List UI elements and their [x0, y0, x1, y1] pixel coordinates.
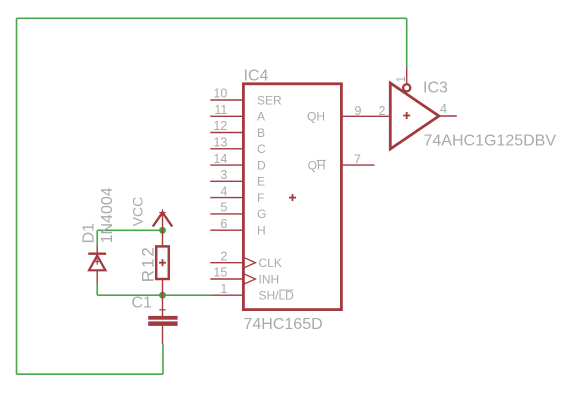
- svg-text:D1: D1: [81, 223, 98, 244]
- svg-text:IC4: IC4: [244, 68, 269, 85]
- svg-text:4: 4: [440, 102, 447, 116]
- svg-text:2: 2: [220, 249, 227, 263]
- svg-text:7: 7: [354, 152, 361, 166]
- svg-text:CLK: CLK: [259, 256, 282, 270]
- svg-text:E: E: [257, 175, 265, 189]
- svg-text:12: 12: [213, 119, 227, 133]
- svg-text:1: 1: [220, 282, 227, 296]
- svg-text:2: 2: [378, 104, 385, 118]
- svg-text:4: 4: [220, 184, 227, 198]
- svg-text:11: 11: [214, 103, 227, 117]
- svg-text:VCC: VCC: [130, 197, 146, 227]
- svg-text:15: 15: [213, 266, 227, 280]
- svg-text:14: 14: [213, 152, 227, 166]
- svg-text:74AHC1G125DBV: 74AHC1G125DBV: [424, 133, 557, 150]
- svg-text:SER: SER: [257, 93, 282, 107]
- svg-text:B: B: [257, 126, 265, 140]
- svg-text:F: F: [257, 191, 264, 205]
- svg-text:6: 6: [220, 217, 227, 231]
- svg-text:R12: R12: [139, 245, 158, 282]
- svg-text:10: 10: [213, 87, 227, 101]
- svg-text:74HC165D: 74HC165D: [244, 316, 323, 333]
- svg-text:5: 5: [220, 201, 227, 215]
- svg-text:C: C: [257, 142, 266, 156]
- svg-text:3: 3: [220, 168, 227, 182]
- svg-text:INH: INH: [259, 272, 280, 286]
- svg-text:G: G: [257, 207, 266, 221]
- svg-text:A: A: [257, 110, 265, 124]
- svg-text:D: D: [257, 158, 266, 172]
- svg-text:9: 9: [355, 104, 362, 118]
- svg-text:IC3: IC3: [423, 80, 448, 97]
- svg-text:1: 1: [396, 76, 408, 82]
- svg-text:QH: QH: [307, 110, 325, 124]
- svg-text:H: H: [257, 224, 266, 238]
- svg-text:C1: C1: [132, 294, 153, 311]
- svg-text:13: 13: [213, 136, 227, 150]
- svg-text:1N4004: 1N4004: [99, 187, 116, 243]
